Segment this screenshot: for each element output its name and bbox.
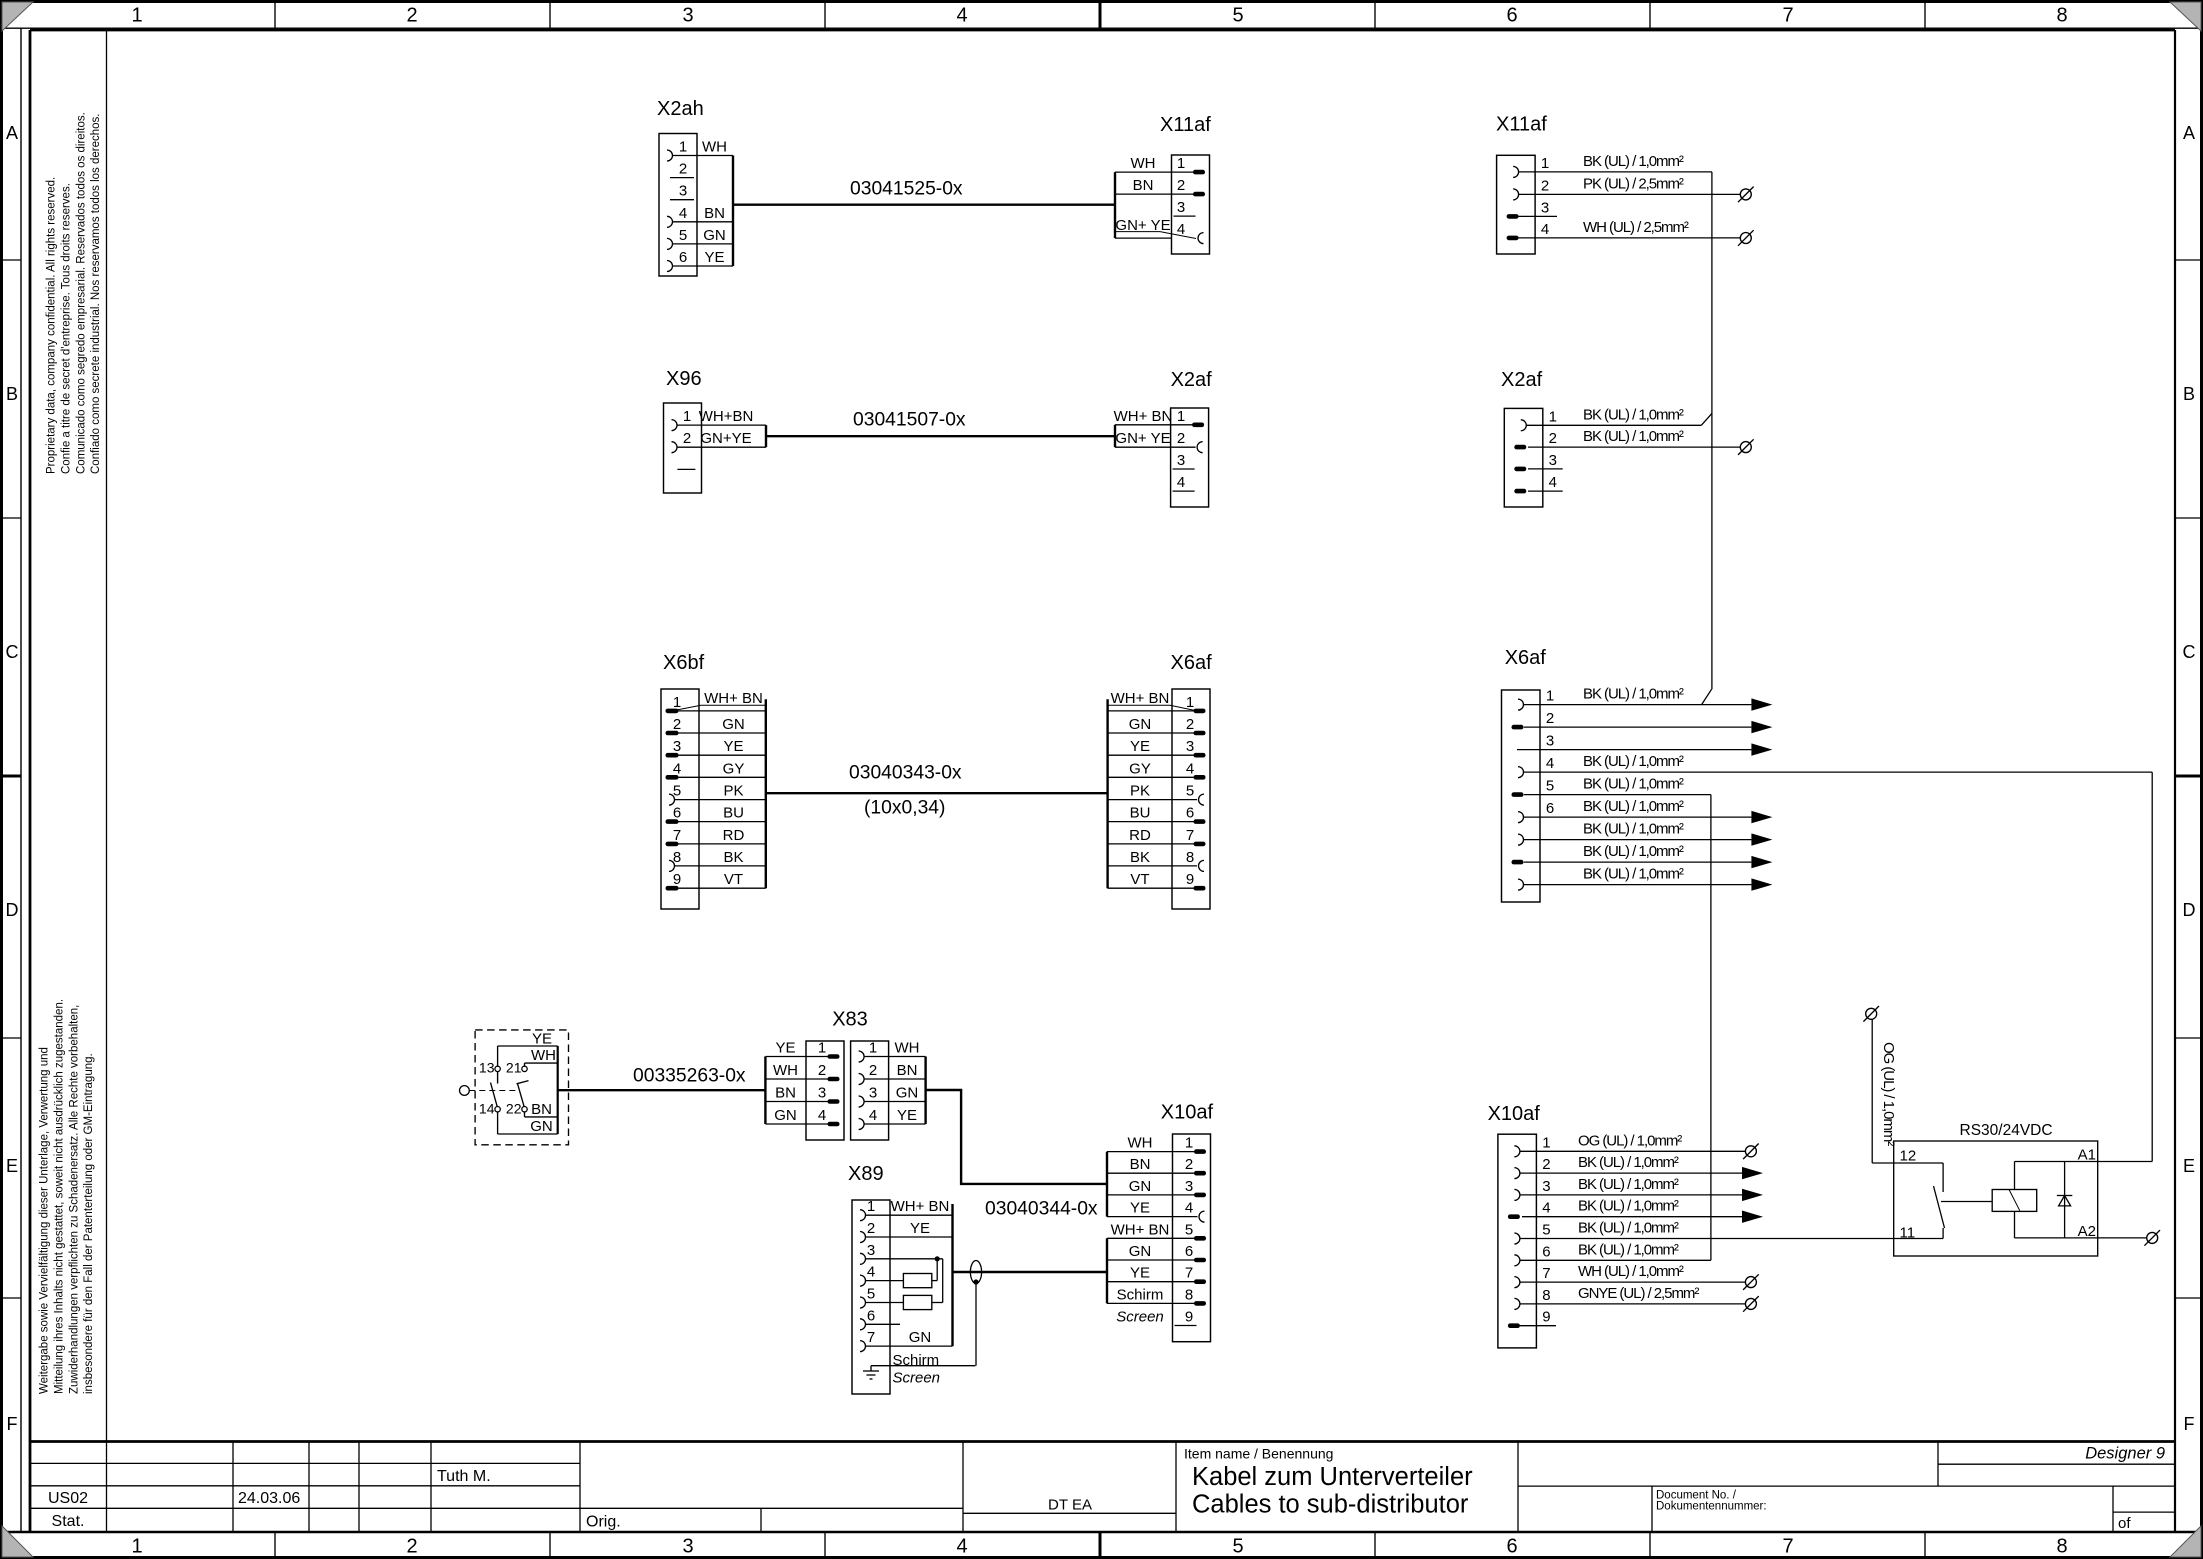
- row tick y=1038: [3, 1037, 21, 1039]
- X6af pin 1: [1108, 694, 1206, 713]
- relay coil link: [1941, 1201, 1992, 1203]
- X6af-r pin5 wire down to X10af pin6: [1524, 794, 1711, 796]
- X11af pin 4: [1177, 221, 1204, 244]
- X11af pin 3: [1507, 199, 1550, 218]
- svg-text:4: 4: [818, 1107, 826, 1124]
- svg-text:YE: YE: [775, 1040, 795, 1057]
- svg-text:6: 6: [1542, 1243, 1550, 1260]
- cable 00335263-0x: [558, 1089, 766, 1091]
- svg-text:6: 6: [1546, 800, 1554, 817]
- X6af pin 9: [1518, 866, 1684, 891]
- X6af pin 1: [1518, 686, 1684, 711]
- svg-text:GN+YE: GN+YE: [700, 430, 751, 447]
- X10af pin 5: [1107, 1221, 1206, 1240]
- svg-text:8: 8: [2056, 5, 2067, 27]
- svg-text:YE: YE: [723, 738, 743, 755]
- column tick x=825: [824, 3, 826, 28]
- cable 03041507-0x: [766, 435, 1115, 437]
- svg-text:YE: YE: [1130, 738, 1150, 755]
- corner triangle bottom-right: [2170, 1526, 2201, 1557]
- svg-text:7: 7: [1542, 1265, 1550, 1282]
- connector X89: [848, 1163, 890, 1394]
- svg-text:9: 9: [1542, 1309, 1550, 1326]
- connector X10af: [1488, 1103, 1541, 1348]
- svg-text:X89: X89: [848, 1163, 884, 1185]
- X10af-r pin1 wire to empty terminal: [1520, 1150, 1745, 1152]
- svg-text:WH+ BN: WH+ BN: [1111, 1221, 1170, 1238]
- svg-text:5: 5: [679, 227, 687, 244]
- X10af-r pin 2 wire with arrow: [1520, 1172, 1742, 1174]
- corner triangle top-right: [2170, 2, 2201, 31]
- top reference strip line: [3, 27, 2200, 29]
- svg-text:7: 7: [673, 827, 681, 844]
- svg-text:Screen: Screen: [893, 1370, 941, 1387]
- X11af pin 2: [1115, 177, 1205, 196]
- X89 pin 3 wire with junction: [866, 1258, 943, 1260]
- X6bf pin 1: [666, 694, 766, 713]
- svg-text:7: 7: [1186, 827, 1194, 844]
- X89 pin 6 stub: [866, 1323, 901, 1325]
- svg-text:BN: BN: [704, 205, 725, 222]
- X10af-r pin 3 wire with arrow: [1520, 1194, 1742, 1196]
- svg-text:WH+BN: WH+BN: [699, 408, 754, 425]
- X10af pin 2: [1514, 1154, 1679, 1179]
- connector X96: [664, 368, 702, 493]
- X10af pin 4: [1107, 1200, 1205, 1223]
- X6af pin 1 label leader: [1108, 704, 1170, 706]
- svg-text:BK (UL) / 1,0mm²: BK (UL) / 1,0mm²: [1583, 866, 1684, 883]
- svg-text:3: 3: [818, 1085, 826, 1102]
- X10af-r pin6 wire joining BK chain: [1520, 1259, 1711, 1261]
- X11af label column edge: [1114, 172, 1116, 238]
- switch contact 21-22 (NC): [522, 1066, 527, 1071]
- relay switch contact: [1942, 1163, 1944, 1192]
- X2af pin 2: [1514, 428, 1684, 449]
- svg-text:BK (UL) / 1,0mm²: BK (UL) / 1,0mm²: [1583, 686, 1684, 703]
- svg-text:4: 4: [1549, 474, 1557, 491]
- svg-text:1: 1: [673, 694, 681, 711]
- svg-text:2: 2: [1541, 177, 1549, 194]
- switch port circle: [460, 1086, 470, 1096]
- svg-text:GNYE (UL) / 2,5mm²: GNYE (UL) / 2,5mm²: [1578, 1285, 1699, 1302]
- svg-text:2: 2: [406, 1536, 417, 1558]
- X2af pin 2: [1115, 430, 1203, 453]
- svg-text:2: 2: [1177, 177, 1185, 194]
- connector X2af: [1171, 369, 1213, 507]
- svg-text:X10af: X10af: [1161, 1102, 1214, 1124]
- svg-text:3: 3: [679, 183, 687, 200]
- svg-text:RD: RD: [1129, 827, 1151, 844]
- X2ah pin 3: [670, 183, 694, 200]
- svg-text:03040344-0x: 03040344-0x: [985, 1199, 1098, 1220]
- X2af pin 3: [1173, 452, 1195, 469]
- X10af pin 7: [1514, 1263, 1684, 1288]
- column centre tick (4/5): [1099, 3, 1102, 28]
- svg-text:3: 3: [1549, 452, 1557, 469]
- svg-text:GY: GY: [1129, 760, 1151, 777]
- X89 pin 4: [860, 1264, 875, 1287]
- svg-text:6: 6: [1506, 1536, 1517, 1558]
- svg-text:BK (UL) / 1,0mm²: BK (UL) / 1,0mm²: [1583, 153, 1684, 170]
- svg-text:1: 1: [1177, 155, 1185, 172]
- svg-text:X2ah: X2ah: [657, 98, 704, 120]
- drawing area inner frame: [30, 29, 2175, 32]
- X6bf pin 4: [666, 760, 766, 779]
- cable shield ellipse: [970, 1261, 981, 1284]
- svg-text:GN: GN: [909, 1329, 932, 1346]
- X83 plug pin 2: [765, 1062, 839, 1081]
- svg-text:4: 4: [1542, 1200, 1550, 1217]
- row centre tick (C/D): [3, 775, 21, 778]
- column tick x=1375: [1374, 3, 1376, 28]
- svg-text:1: 1: [818, 1040, 826, 1057]
- X10af pin 6: [1514, 1241, 1679, 1266]
- X6af-r pin 1 wire with arrow: [1524, 704, 1752, 706]
- svg-text:E: E: [6, 1156, 18, 1176]
- empty terminal: [1745, 1146, 1756, 1157]
- svg-text:Cables to sub-distributor: Cables to sub-distributor: [1192, 1491, 1469, 1519]
- empty terminal: [1740, 233, 1751, 244]
- X10af pin 9: [1175, 1309, 1197, 1326]
- svg-text:4: 4: [1186, 760, 1194, 777]
- X2af pin 1: [1521, 406, 1684, 431]
- svg-text:2: 2: [406, 5, 417, 27]
- svg-text:BK: BK: [1130, 849, 1150, 866]
- svg-text:A: A: [6, 123, 18, 143]
- svg-text:4: 4: [1541, 221, 1549, 238]
- connector X83 socket: [0, 0, 889, 1140]
- svg-text:C: C: [2183, 642, 2196, 662]
- X11af-r pin1 wire (BK chain): [1519, 171, 1712, 173]
- svg-text:3: 3: [1185, 1178, 1193, 1195]
- svg-text:3: 3: [869, 1085, 877, 1102]
- X10af pin 7: [1107, 1265, 1206, 1284]
- svg-text:Kabel zum Unterverteiler: Kabel zum Unterverteiler: [1192, 1463, 1473, 1491]
- X2af-r pin4 stub: [1528, 490, 1563, 492]
- svg-text:VT: VT: [724, 871, 743, 888]
- svg-text:1: 1: [131, 5, 142, 27]
- svg-text:X96: X96: [666, 368, 702, 390]
- empty terminal: [1745, 1298, 1756, 1309]
- X10af pin 5: [1514, 1220, 1679, 1245]
- X83 socket label column edge: [924, 1057, 926, 1125]
- X2af pin 4: [1173, 474, 1195, 491]
- svg-text:4: 4: [1185, 1200, 1193, 1217]
- X6af pin 6: [1108, 805, 1206, 824]
- svg-text:BK (UL) / 1,0mm²: BK (UL) / 1,0mm²: [1583, 776, 1684, 793]
- svg-text:13: 13: [479, 1060, 495, 1076]
- svg-text:21: 21: [506, 1060, 522, 1076]
- wire X83 to X10af: [926, 1090, 1107, 1184]
- svg-text:Proprietary data, company con: Proprietary data, company confidential. …: [46, 177, 58, 474]
- X6bf pin 5: [669, 783, 766, 806]
- svg-text:X83: X83: [832, 1009, 868, 1031]
- svg-text:BN: BN: [531, 1101, 552, 1118]
- svg-text:RS30/24VDC: RS30/24VDC: [1960, 1122, 2053, 1139]
- svg-text:BN: BN: [1133, 177, 1154, 194]
- svg-text:5: 5: [1185, 1221, 1193, 1238]
- X10af-r pin8 wire to empty terminal: [1520, 1303, 1745, 1305]
- X96 unused pin dash: [677, 468, 695, 470]
- column tick x=1925: [1924, 3, 1926, 28]
- svg-text:6: 6: [867, 1307, 875, 1324]
- svg-text:WH (UL) / 1,0mm²: WH (UL) / 1,0mm²: [1578, 1263, 1684, 1280]
- svg-text:3: 3: [1546, 733, 1554, 750]
- X10af pin 8: [1514, 1285, 1699, 1310]
- connector X2ah: [657, 98, 704, 276]
- X6af-r pin 8 wire with arrow: [1524, 861, 1752, 863]
- X2af label column edge: [1114, 425, 1116, 447]
- X6bf pin 7: [666, 827, 766, 846]
- X2af pin 4: [1514, 474, 1557, 493]
- svg-text:Mitteilung ihres Inhalts nicht: Mitteilung ihres Inhalts nicht gestattet…: [53, 999, 65, 1394]
- svg-text:5: 5: [1232, 5, 1243, 27]
- X2ah label column edge: [732, 156, 734, 267]
- connector X6af: [1171, 652, 1213, 909]
- svg-text:7: 7: [1782, 1536, 1793, 1558]
- relay suppressor diode V1: [2064, 1162, 2066, 1238]
- svg-text:3: 3: [1177, 452, 1185, 469]
- X10af pin 3: [1107, 1178, 1206, 1197]
- svg-text:03040343-0x: 03040343-0x: [849, 763, 962, 784]
- svg-text:WH: WH: [1128, 1135, 1153, 1152]
- svg-text:F: F: [2184, 1414, 2195, 1434]
- corner triangle top-left: [2, 2, 33, 31]
- X6af pin 7: [1108, 827, 1206, 846]
- X6bf pin 1 label leader: [701, 704, 766, 706]
- cable 03041525-0x: [733, 203, 1115, 205]
- svg-text:YE: YE: [1130, 1200, 1150, 1217]
- svg-text:WH: WH: [702, 139, 727, 156]
- svg-text:4: 4: [673, 760, 681, 777]
- X83 plug pin 4: [765, 1107, 839, 1126]
- X6af label column edge: [1106, 699, 1108, 888]
- svg-text:BU: BU: [1130, 805, 1151, 822]
- svg-text:6: 6: [1186, 805, 1194, 822]
- svg-text:2: 2: [673, 716, 681, 733]
- svg-text:US02: US02: [48, 1490, 88, 1507]
- svg-text:F: F: [7, 1414, 18, 1434]
- svg-text:BN: BN: [897, 1062, 918, 1079]
- svg-text:GN: GN: [774, 1107, 797, 1124]
- empty terminal: [2147, 1232, 2158, 1243]
- svg-text:GN: GN: [1129, 1243, 1152, 1260]
- X10af pin 1: [1514, 1132, 1682, 1157]
- svg-text:6: 6: [1185, 1243, 1193, 1260]
- connector X83 plug: [0, 0, 844, 1140]
- svg-text:GN+ YE: GN+ YE: [1115, 430, 1170, 447]
- X83 socket pin 4: [859, 1107, 926, 1130]
- svg-text:Schirm: Schirm: [893, 1352, 940, 1369]
- X11af-r pin3 stub: [1513, 215, 1558, 217]
- empty terminal: [1740, 442, 1751, 453]
- BK chain vertical wire: [1711, 172, 1713, 689]
- svg-text:2: 2: [1549, 430, 1557, 447]
- svg-text:PK: PK: [1130, 783, 1150, 800]
- svg-text:3: 3: [867, 1242, 875, 1259]
- shield drain wire: [975, 1282, 977, 1366]
- svg-text:WH: WH: [773, 1062, 798, 1079]
- svg-text:2: 2: [867, 1220, 875, 1237]
- corner triangle bottom-left: [2, 1526, 33, 1557]
- column tick x=275: [274, 3, 276, 28]
- svg-text:03041507-0x: 03041507-0x: [853, 410, 966, 431]
- X6af-r pin 6 wire with arrow: [1524, 816, 1752, 818]
- row tick y=260: [3, 259, 21, 261]
- connector X2af: [1501, 369, 1543, 507]
- empty terminal: [1745, 1277, 1756, 1288]
- connector X6af: [1502, 647, 1547, 902]
- svg-text:12: 12: [1900, 1148, 1917, 1165]
- switch contact 13-14: [495, 1066, 500, 1071]
- svg-text:OG (UL) / 1,0mm²: OG (UL) / 1,0mm²: [1880, 1042, 1897, 1146]
- svg-text:Confiado como secrete industri: Confiado como secrete industrial. Nos re…: [90, 113, 102, 474]
- cable 03040344-0x: [953, 1271, 1108, 1273]
- left reference strip line: [20, 28, 22, 1532]
- svg-text:GN: GN: [703, 227, 726, 244]
- svg-text:D: D: [6, 900, 19, 920]
- X89 pin 1: [860, 1198, 953, 1221]
- X11af pin 2: [1513, 175, 1684, 200]
- svg-text:4: 4: [679, 205, 687, 222]
- svg-text:WH+ BN: WH+ BN: [1114, 408, 1173, 425]
- X96 label column edge: [765, 425, 767, 447]
- svg-text:8: 8: [1185, 1286, 1193, 1303]
- X10af pin 3: [1514, 1176, 1679, 1201]
- svg-text:1: 1: [1177, 408, 1185, 425]
- svg-text:4: 4: [1546, 755, 1554, 772]
- svg-text:6: 6: [679, 249, 687, 266]
- svg-text:BK (UL) / 1,0mm²: BK (UL) / 1,0mm²: [1583, 798, 1684, 815]
- X2af-r pin1 wire (BK chain): [1526, 424, 1701, 426]
- svg-text:9: 9: [673, 871, 681, 888]
- svg-text:Designer 9: Designer 9: [2085, 1445, 2165, 1463]
- svg-text:3: 3: [1542, 1178, 1550, 1195]
- resistor R2 on X89 pin 5: [866, 1302, 904, 1304]
- X89 pin 7: [860, 1329, 953, 1352]
- svg-text:7: 7: [1782, 5, 1793, 27]
- X89 pin 2: [860, 1220, 953, 1243]
- X6af pin 5: [1512, 776, 1684, 797]
- svg-text:BN: BN: [775, 1085, 796, 1102]
- svg-text:5: 5: [1186, 783, 1194, 800]
- proximity switch dashed enclosure: [475, 1030, 568, 1145]
- X83 socket pin 2: [859, 1062, 926, 1085]
- svg-text:Tuth M.: Tuth M.: [437, 1468, 491, 1485]
- X6bf pin 6: [666, 805, 766, 824]
- svg-text:WH: WH: [895, 1040, 920, 1057]
- svg-text:1: 1: [1542, 1134, 1550, 1151]
- svg-text:14: 14: [479, 1101, 495, 1117]
- row tick y=1298: [3, 1297, 21, 1299]
- X96 pin 1: [672, 408, 767, 431]
- svg-text:BK (UL) / 1,0mm²: BK (UL) / 1,0mm²: [1583, 428, 1684, 445]
- svg-text:1: 1: [1541, 155, 1549, 172]
- svg-text:BK (UL) / 1,0mm²: BK (UL) / 1,0mm²: [1578, 1220, 1679, 1237]
- svg-text:PK (UL) / 2,5mm²: PK (UL) / 2,5mm²: [1583, 175, 1684, 192]
- svg-text:24.03.06: 24.03.06: [238, 1490, 300, 1507]
- svg-text:2: 2: [1186, 716, 1194, 733]
- svg-text:2: 2: [818, 1062, 826, 1079]
- svg-text:RD: RD: [723, 827, 745, 844]
- row tick y=518: [3, 517, 21, 519]
- svg-text:2: 2: [1546, 710, 1554, 727]
- BK chain jog at X6af: [1702, 689, 1712, 704]
- svg-text:Item name / Benennung: Item name / Benennung: [1184, 1446, 1333, 1462]
- X6af pin 8: [1108, 849, 1204, 872]
- svg-text:X6af: X6af: [1505, 647, 1547, 669]
- svg-text:C: C: [6, 642, 19, 662]
- svg-text:GY: GY: [723, 760, 745, 777]
- svg-text:9: 9: [1186, 871, 1194, 888]
- X10af-r pin5 wire to relay pin 11: [1520, 1238, 1943, 1240]
- svg-text:6: 6: [1506, 5, 1517, 27]
- svg-text:5: 5: [1542, 1222, 1550, 1239]
- svg-text:1: 1: [867, 1198, 875, 1215]
- X6af pin 7: [1518, 821, 1684, 846]
- svg-text:YE: YE: [532, 1031, 552, 1048]
- connector X6bf: [661, 652, 705, 909]
- X11af pin 3: [1174, 199, 1196, 216]
- svg-text:GN: GN: [530, 1118, 553, 1135]
- X6bf label column edge: [765, 699, 767, 888]
- svg-text:2: 2: [1177, 430, 1185, 447]
- switch actuator dashed line: [469, 1090, 517, 1092]
- X2af-r pin2 wire to empty terminal: [1528, 446, 1740, 448]
- relay coil: [1992, 1190, 2037, 1212]
- X2ah pin 5: [667, 227, 733, 250]
- X10af-r pin7 wire to empty terminal: [1520, 1281, 1745, 1283]
- svg-text:WH: WH: [1131, 155, 1156, 172]
- X10af pin 2: [1107, 1156, 1206, 1175]
- svg-text:7: 7: [1185, 1265, 1193, 1282]
- svg-text:Stat.: Stat.: [52, 1513, 85, 1530]
- svg-text:WH: WH: [531, 1047, 556, 1064]
- empty terminal: [1740, 189, 1751, 200]
- X83 plug pin 3: [765, 1085, 839, 1104]
- svg-text:1: 1: [679, 139, 687, 156]
- svg-text:1: 1: [1546, 688, 1554, 705]
- svg-text:5: 5: [1546, 778, 1554, 795]
- X89 label column edge: [951, 1204, 953, 1346]
- svg-text:1: 1: [131, 1536, 142, 1558]
- connector X11af: [1496, 114, 1547, 255]
- X10af pin 8: [1107, 1286, 1206, 1305]
- svg-text:B: B: [2183, 384, 2195, 404]
- svg-text:6: 6: [673, 805, 681, 822]
- X6bf pin 9: [666, 871, 766, 890]
- svg-text:1: 1: [1185, 1135, 1193, 1152]
- svg-text:BN: BN: [1130, 1156, 1151, 1173]
- svg-text:X6bf: X6bf: [663, 652, 705, 674]
- X89 pin 5: [860, 1286, 875, 1309]
- svg-text:WH+ BN: WH+ BN: [704, 690, 763, 707]
- X6af-r pin 7 wire with arrow: [1524, 839, 1752, 841]
- svg-text:2: 2: [683, 430, 691, 447]
- svg-text:Comunicado como segredo empres: Comunicado como segredo empresarial. Res…: [75, 112, 87, 474]
- svg-text:OG (UL) / 1,0mm²: OG (UL) / 1,0mm²: [1578, 1132, 1682, 1149]
- X89 shield line: [871, 1365, 975, 1367]
- svg-text:4: 4: [867, 1264, 875, 1281]
- X83 plug label column edge: [764, 1057, 766, 1125]
- svg-text:WH+ BN: WH+ BN: [1111, 690, 1170, 707]
- svg-text:1: 1: [869, 1040, 877, 1057]
- X11af-r pin4 wire to empty terminal: [1513, 237, 1741, 239]
- X6af pin 6: [1518, 798, 1684, 823]
- X10af pin 1: [1107, 1135, 1206, 1154]
- X6bf pin 8: [669, 849, 766, 872]
- X6af-r pin4 wire to relay A1: [1524, 771, 2152, 773]
